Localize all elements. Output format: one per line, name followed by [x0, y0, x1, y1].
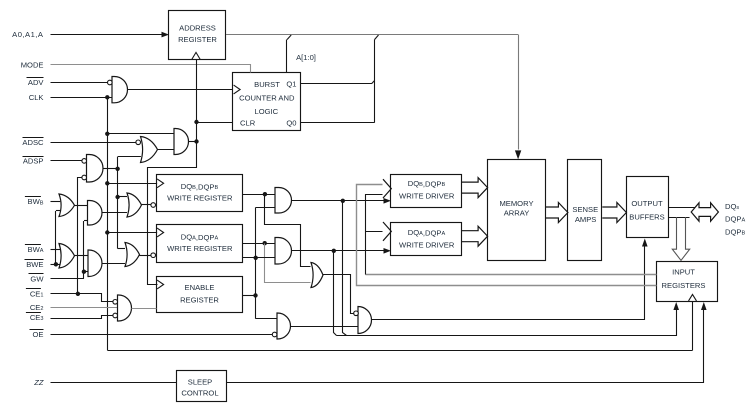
junction GW to U9 — [82, 270, 86, 274]
wire DQA register output 2 — [242, 257, 275, 259]
svg-text:CLK: CLK — [29, 93, 44, 102]
junction DQA output 1 — [263, 241, 267, 245]
gate U10 write-A OR — [125, 243, 140, 267]
wire MODE to burst counter — [51, 65, 251, 73]
wire U14 output to U16 bubble — [323, 275, 354, 314]
gate U14 output-path OR — [311, 263, 323, 288]
svg-text:REGISTERS: REGISTERS — [662, 281, 706, 290]
wire output buffers to DQ pads — [668, 207, 698, 209]
svg-text:BWE: BWE — [26, 260, 43, 269]
gate U16 output-enable AND — [358, 307, 372, 334]
wire U10 output to DQA register — [140, 255, 151, 257]
wire U4 output — [189, 141, 197, 143]
svg-text:REGISTER: REGISTER — [180, 295, 219, 304]
wire GW branch to U9 bottom — [84, 271, 88, 273]
block DQA,DQPA WRITE REGISTER — [157, 225, 243, 263]
junction U4 output — [194, 139, 198, 143]
bus tap A[1:0] to burst counter — [287, 35, 291, 40]
svg-text:ENABLE: ENABLE — [185, 283, 215, 292]
wire U2 output to U4 — [158, 149, 175, 151]
block DQA,DQPA WRITE DRIVER — [391, 223, 462, 256]
svg-text:WRITE REGISTER: WRITE REGISTER — [167, 244, 233, 253]
wire CLK branch to DQA register clock — [107, 232, 157, 234]
wire DQA2 rail to U15 top — [256, 318, 277, 320]
wire output buffers to DQ bus down — [668, 217, 689, 219]
svg-text:Q1: Q1 — [286, 80, 296, 89]
wire DQB output down to U14 top — [265, 195, 311, 267]
svg-text:DQB,DQPB: DQB,DQPB — [181, 182, 219, 191]
wire Q0 output joining bus — [301, 122, 375, 124]
wire address register clock vertical — [196, 60, 198, 142]
svg-text:ADDRESS: ADDRESS — [179, 24, 216, 33]
svg-text:BUFFERS: BUFFERS — [629, 213, 664, 222]
block INPUT REGISTERS — [657, 262, 718, 302]
wire enable register output — [242, 295, 256, 297]
arrow into input registers bottom 2 — [701, 302, 707, 310]
junction U3 output rail — [115, 167, 119, 171]
wire U4 output to enable register clock — [148, 142, 197, 285]
bus address register output — [226, 34, 518, 36]
wire input registers data out B — [357, 185, 657, 286]
wire BWB input — [51, 201, 61, 203]
wire OE input — [51, 334, 273, 336]
arrow into memory array top — [515, 150, 521, 159]
gate U9 write-A AND — [88, 250, 102, 277]
block DQB,DQPB WRITE REGISTER — [157, 175, 243, 212]
gate U6 write-B AND — [88, 201, 103, 226]
svg-text:DQA,DQPA: DQA,DQPA — [408, 228, 446, 237]
svg-text:CONTROL: CONTROL — [181, 389, 218, 398]
svg-text:WRITE DRIVER: WRITE DRIVER — [399, 191, 455, 200]
gate U1 ADV-CLK AND — [112, 77, 127, 103]
wire ZZ to sleep control — [51, 382, 177, 384]
wire BWA input — [51, 249, 61, 251]
bus memory array to sense amps — [546, 203, 568, 223]
wire U7 output to DQB register — [142, 204, 151, 206]
junction enable output — [253, 293, 257, 297]
wire DQA2 vertical rail — [255, 208, 257, 319]
wire ADV input — [51, 82, 108, 84]
wire DQB register output — [242, 194, 275, 196]
bus DQ down to input registers — [672, 217, 689, 260]
wire A0,A1,A input with arrow — [51, 34, 164, 36]
wire CLR to burst counter — [197, 122, 234, 124]
svg-text:INPUT: INPUT — [672, 268, 695, 277]
junction CLK to DQB register clock — [105, 181, 109, 185]
junction BWE branch — [54, 262, 58, 266]
svg-text:SENSE: SENSE — [572, 205, 598, 214]
svg-text:SLEEP: SLEEP — [188, 377, 212, 386]
block ADDRESS REGISTER — [169, 11, 226, 60]
svg-text:A0,A1,A: A0,A1,A — [12, 30, 44, 39]
svg-text:LOGIC: LOGIC — [254, 107, 278, 116]
junction CLK — [105, 95, 109, 99]
gate U7 write-B OR — [127, 193, 142, 217]
wire CLK branch to U4 — [107, 133, 174, 135]
svg-text:MODE: MODE — [21, 60, 44, 69]
gate U12 write-driver-B AND — [275, 188, 292, 214]
gate U5 BWB OR — [59, 194, 75, 217]
gate U3 ADSP AND — [87, 155, 104, 183]
wire U11 output to enable register — [132, 308, 157, 310]
svg-text:Q0: Q0 — [286, 118, 296, 127]
block DQB,DQPB WRITE DRIVER — [391, 175, 462, 208]
svg-text:OE: OE — [33, 330, 44, 339]
svg-text:AMPS: AMPS — [575, 215, 597, 224]
block ENABLE REGISTER — [157, 277, 243, 313]
wire CE1 input — [51, 294, 113, 302]
svg-text:BURST: BURST — [254, 80, 280, 89]
arrow into input registers bottom 1 — [673, 302, 679, 310]
svg-text:DQA,DQPA: DQA,DQPA — [181, 233, 219, 242]
gate U8 BWA OR — [59, 244, 75, 269]
wire CLK vertical rail — [107, 97, 109, 350]
wire CE1 vertical to U3 — [78, 178, 82, 294]
wire GW input — [51, 278, 84, 280]
block OUTPUT BUFFERS — [627, 177, 669, 238]
wire CLK branch to DQB register clock — [107, 183, 157, 185]
wire U6 output to U7 bottom — [102, 212, 127, 214]
svg-text:A[1:0]: A[1:0] — [296, 53, 316, 62]
gate U4 clock-qualifier AND — [174, 129, 189, 155]
wire GW rail to U6 bottom — [84, 220, 88, 222]
svg-text:GW: GW — [30, 274, 44, 283]
gate U13 write-driver-A AND — [275, 238, 292, 265]
svg-text:REGISTER: REGISTER — [178, 35, 217, 44]
wire U9 output to U10 bottom — [102, 263, 125, 265]
wire BWE input — [51, 264, 61, 266]
junction DQB output — [263, 192, 267, 196]
wire CE2 input — [51, 307, 118, 309]
svg-text:ADSC: ADSC — [22, 138, 44, 147]
wire U12 output to DQB driver — [292, 200, 385, 202]
junction CLR branch — [194, 120, 198, 124]
open arrow into DQA write driver — [383, 222, 391, 241]
svg-text:ADSP: ADSP — [23, 156, 44, 165]
junction CE1 branch — [76, 292, 80, 296]
wire U3 output — [103, 168, 118, 170]
wire DQA2 rail to U12 bottom — [256, 207, 275, 209]
svg-text:ZZ: ZZ — [33, 378, 44, 387]
gate U2 ADSC OR — [141, 137, 158, 163]
wire U16 output to output buffers — [372, 247, 645, 320]
junction U12 output branch — [341, 199, 345, 203]
wire CLK input — [51, 97, 113, 99]
wire rail to U10 top input — [118, 248, 125, 250]
svg-text:ADV: ADV — [28, 78, 45, 87]
wire U15 output to U16 — [291, 326, 359, 328]
open arrow into DQB write driver — [383, 179, 391, 198]
junction CLK to DQA register clock — [105, 230, 109, 234]
wire sleep control to input registers — [227, 310, 704, 383]
wire U2 bottom input from U3 rail — [118, 156, 141, 158]
wire U3 rail vertical — [117, 157, 119, 249]
svg-text:WRITE REGISTER: WRITE REGISTER — [167, 193, 233, 202]
wire CE3 input — [51, 316, 113, 319]
wire rail to U7 top input — [118, 196, 127, 198]
svg-text:ARRAY: ARRAY — [504, 209, 530, 218]
svg-text:DQB,DQPB: DQB,DQPB — [408, 179, 446, 188]
svg-text:OUTPUT: OUTPUT — [631, 199, 663, 208]
wire ADSC input — [51, 142, 136, 144]
junction U13 output branch — [332, 249, 336, 253]
junction CLK to U4 — [105, 132, 109, 136]
wire write strobes to input registers — [343, 201, 347, 336]
arrow into DQB write driver — [384, 198, 392, 204]
gate U15 OE AND — [277, 313, 291, 339]
block BURST COUNTER AND LOGIC — [233, 73, 301, 131]
svg-text:COUNTER AND: COUNTER AND — [239, 94, 295, 103]
junction DQA output 2 — [254, 256, 258, 260]
wire ADSP input — [51, 160, 82, 162]
wire U1 output to burst CLK — [128, 89, 234, 91]
wire DQA register output 1 — [242, 243, 275, 245]
wire data branch to DQA driver — [366, 231, 383, 233]
arrow into output buffers bottom — [642, 239, 648, 247]
svg-text:WRITE DRIVER: WRITE DRIVER — [399, 240, 455, 249]
svg-text:CLR: CLR — [240, 118, 256, 127]
wire U5 output to U6 — [75, 205, 88, 207]
bus bidirectional DQ arrow — [691, 203, 718, 221]
wire BWE to U5 bottom input — [55, 211, 57, 264]
wire U8 output to U9 — [75, 255, 89, 257]
junction rail to U7 — [115, 195, 119, 199]
wire DQA output gray to U14 bottom — [265, 244, 311, 283]
arrow into DQA write driver — [384, 248, 392, 254]
bus DQA driver to memory array — [462, 226, 488, 246]
block MEMORY ARRAY — [488, 160, 546, 261]
bus DQB driver to memory array — [462, 178, 488, 198]
wire input registers data out A — [366, 274, 657, 276]
wire U13 output to DQA driver — [292, 250, 385, 252]
wire Q1 output joining bus — [301, 83, 372, 85]
svg-text:MEMORY: MEMORY — [499, 199, 533, 208]
gate U11 chip-enable AND — [118, 295, 132, 321]
wire GW vertical rail — [83, 221, 85, 279]
bus sense amps to output buffers — [602, 203, 626, 223]
block SENSE AMPS — [568, 160, 602, 261]
block SLEEP CONTROL — [177, 371, 227, 402]
wire CLK to input registers clock — [108, 350, 692, 352]
